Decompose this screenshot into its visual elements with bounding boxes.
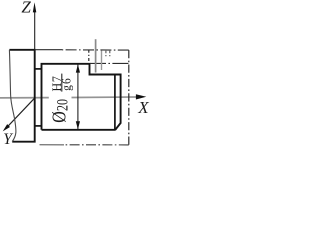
gray guide line B: [101, 51, 103, 71]
phantom stub at x=109.8: [109, 51, 111, 57]
svg-text:20: 20: [54, 99, 72, 111]
svg-text:X: X: [137, 98, 149, 117]
dimension arrowhead up: [76, 64, 80, 72]
X axis arrowhead: [136, 94, 146, 99]
gray guide line A: [95, 39, 97, 72]
flange wavy break line (thin): [9, 50, 16, 142]
phantom stub at x=88.8: [88, 50, 90, 64]
phantom right line: dash-dot vertical: [128, 50, 130, 145]
svg-text:g6: g6: [59, 77, 74, 91]
dimension arrowhead down: [76, 121, 80, 129]
phantom top line: thin solid lead-in: [35, 49, 62, 51]
part outline: neck groove top edge: [35, 68, 42, 70]
Z axis line: [34, 11, 36, 50]
phantom stub at x=105.9: [105, 51, 107, 57]
svg-text:Ø: Ø: [48, 111, 70, 123]
phantom bore line: dash-dot: [90, 62, 129, 64]
phantom bottom line: dash-dot: [64, 144, 129, 146]
Y axis line: [6, 98, 35, 129]
part outline: chamfer edge line on journal: [114, 75, 116, 131]
part outline: main body and journal: [42, 64, 121, 130]
dimension line: [77, 65, 79, 130]
Z axis arrowhead: [33, 2, 37, 12]
Y axis arrowhead: [3, 124, 10, 131]
svg-text:Z: Z: [21, 0, 31, 17]
part outline: neck groove bottom edge: [35, 125, 42, 127]
svg-text:Y: Y: [3, 131, 13, 148]
fraction bar: [61, 74, 63, 92]
part outline: flange top, right, bottom edges: [9, 50, 34, 142]
X axis line (gray, broken around dimension text): [0, 96, 137, 99]
phantom top line: dash-dot: [62, 49, 129, 51]
phantom bottom line: solid gray lead-in: [40, 144, 65, 146]
